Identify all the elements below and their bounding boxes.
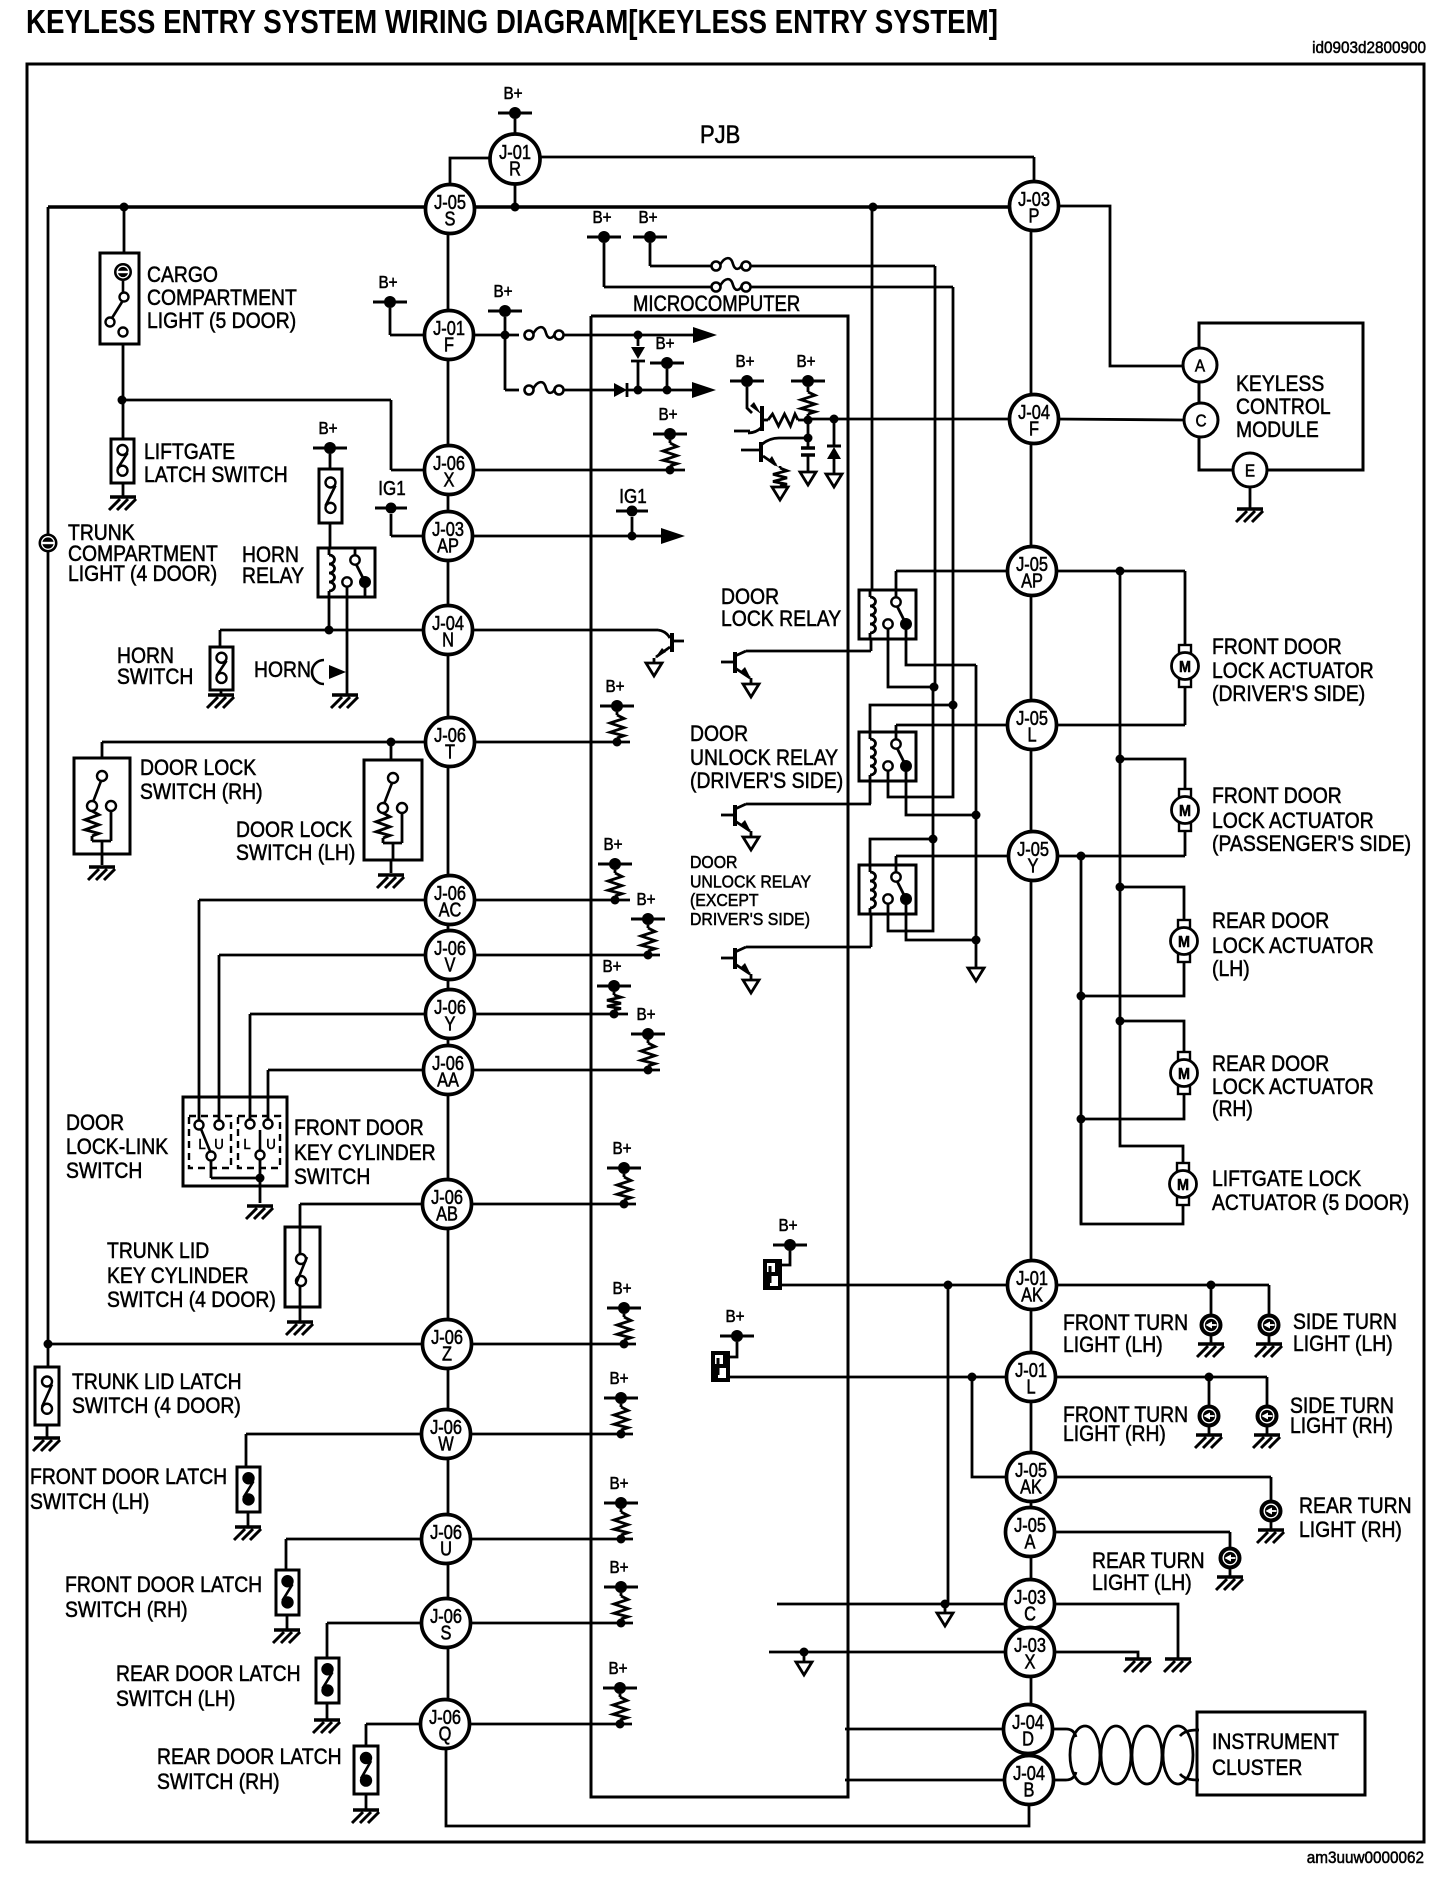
svg-text:am3uuw0000062: am3uuw0000062 <box>1307 1848 1424 1867</box>
svg-text:F: F <box>1029 417 1039 440</box>
wire B row <box>845 1779 1006 1782</box>
svg-text:LATCH SWITCH: LATCH SWITCH <box>144 463 288 487</box>
junction dot J-01R/PJB <box>511 203 520 212</box>
connector J-05 S <box>426 185 475 234</box>
horn <box>312 655 347 695</box>
svg-text:SWITCH (RH): SWITCH (RH) <box>65 1598 188 1622</box>
wire relay1 pivot feed <box>895 571 898 590</box>
connector J-06 V <box>426 931 475 980</box>
label cargo compartment light <box>147 263 297 333</box>
ground front latch RH <box>273 1630 300 1643</box>
ground lock-link switch <box>246 1206 273 1219</box>
svg-text:B+: B+ <box>725 1306 744 1326</box>
side turn light LH <box>1259 1315 1280 1336</box>
svg-text:C: C <box>1024 1602 1036 1625</box>
connector J-05 Y <box>1009 832 1058 881</box>
svg-text:Z: Z <box>442 1342 452 1365</box>
svg-text:(EXCEPT: (EXCEPT <box>690 890 759 910</box>
label rear door latch switch RH <box>157 1745 342 1794</box>
junction dot C row <box>941 1600 950 1609</box>
svg-text:C: C <box>1195 410 1206 430</box>
connector J-04 F <box>1010 395 1059 444</box>
svg-text:(DRIVER'S SIDE): (DRIVER'S SIDE) <box>1212 682 1365 706</box>
svg-text:FRONT DOOR: FRONT DOOR <box>1212 784 1342 808</box>
doc id id0903d2800900 <box>1312 38 1426 57</box>
wire S row <box>327 1623 633 1658</box>
connector J-05 AK <box>1007 1453 1056 1502</box>
wire M4 return <box>1081 1094 1184 1119</box>
front door lock actuator passengers <box>1172 789 1199 831</box>
front door latch switch LH <box>237 1467 260 1526</box>
svg-text:SWITCH (RH): SWITCH (RH) <box>140 780 263 804</box>
wire relay2 coil bottom <box>869 781 872 804</box>
junction dot T row <box>387 738 396 747</box>
wire AK row right <box>1056 1284 1269 1287</box>
connector J-01 F <box>425 311 474 360</box>
svg-text:B+: B+ <box>493 281 512 301</box>
junction dot M4 return <box>1077 1115 1086 1124</box>
junction dot diode branch <box>830 415 839 424</box>
label rear turn light LH <box>1092 1549 1205 1595</box>
wire relay2 fixed to bus <box>888 705 953 797</box>
svg-text:AP: AP <box>437 534 459 557</box>
svg-text:RELAY: RELAY <box>242 564 304 588</box>
label trunk lid latch switch <box>72 1370 242 1418</box>
ground horn <box>331 695 358 708</box>
svg-text:DOOR LOCK: DOOR LOCK <box>236 818 352 842</box>
wire right chain vertical <box>1030 206 1033 1803</box>
wire J-01F fuse row1 <box>473 334 519 337</box>
diode D2 row2 <box>614 383 693 397</box>
junction dot Y right <box>1077 852 1086 861</box>
transistor Q2 <box>741 438 808 500</box>
pin C <box>1184 403 1218 437</box>
diode row1-row2 <box>631 339 645 390</box>
wire C row right <box>1053 1604 1178 1658</box>
horn relay <box>318 548 375 597</box>
breaker AK <box>763 1259 782 1290</box>
svg-text:MODULE: MODULE <box>1236 418 1319 442</box>
B+ pull-up AA row <box>631 1004 665 1075</box>
wire x1120 vertical <box>1119 571 1122 1021</box>
keyless control module box <box>1199 323 1363 470</box>
wire M1 return <box>1184 687 1187 725</box>
svg-text:B: B <box>1024 1778 1035 1801</box>
wire base node down <box>807 420 810 438</box>
junction dot M3 feed <box>1116 883 1125 892</box>
svg-text:FRONT DOOR: FRONT DOOR <box>1212 635 1342 659</box>
wire J-04 F to module C <box>1054 419 1184 420</box>
wire X row right <box>1053 1652 1138 1658</box>
wire cargo drop <box>123 207 126 253</box>
junction dot x976 relay2 <box>972 811 981 820</box>
trunk lid key cylinder switch <box>285 1227 320 1321</box>
svg-text:DRIVER'S SIDE): DRIVER'S SIDE) <box>690 909 810 929</box>
B+ feed J-01 R <box>498 83 532 207</box>
wire front turn RH drop <box>1208 1377 1211 1406</box>
svg-text:LIGHT (RH): LIGHT (RH) <box>1063 1422 1166 1446</box>
svg-text:M: M <box>1179 658 1191 676</box>
wire M4 feed <box>1120 1021 1184 1052</box>
ground trunk lid latch <box>33 1425 60 1451</box>
wire relay bus upper <box>750 266 935 687</box>
label door lock relay <box>721 585 841 631</box>
svg-text:M: M <box>1177 1176 1189 1194</box>
wire left vertical x48 <box>47 207 50 1367</box>
wire T row right <box>476 741 630 744</box>
IG1 feed right <box>616 485 648 536</box>
connector J-06 Q <box>421 1700 470 1749</box>
B+ feed horn relay <box>313 418 347 469</box>
svg-text:SWITCH: SWITCH <box>66 1159 142 1183</box>
junction dot row2b <box>663 386 672 395</box>
svg-text:LOCK RELAY: LOCK RELAY <box>721 607 841 631</box>
wire relay1 coil bottom <box>870 639 873 651</box>
wire U row <box>286 1539 633 1570</box>
wire relay2 moving out <box>906 781 976 815</box>
label front turn light RH <box>1063 1403 1188 1446</box>
wire J-05 S to J-01 R <box>450 158 492 185</box>
svg-text:B+: B+ <box>655 333 674 353</box>
B+ pull-up AB row <box>607 1138 641 1209</box>
svg-text:PJB: PJB <box>700 121 740 149</box>
svg-text:A: A <box>1195 355 1206 375</box>
label front door key cylinder switch <box>294 1116 436 1189</box>
svg-text:U: U <box>440 1537 452 1560</box>
front door latch switch RH <box>276 1570 299 1629</box>
wire J-01R top link <box>540 157 1034 206</box>
connector J-06 Y <box>426 990 475 1039</box>
svg-text:B+: B+ <box>778 1215 797 1235</box>
svg-text:AC: AC <box>439 898 462 921</box>
svg-text:B+: B+ <box>592 207 611 227</box>
svg-text:IG1: IG1 <box>378 477 405 500</box>
ignition switch <box>319 469 342 523</box>
wire AP row right <box>472 535 663 538</box>
label door unlock relay drivers <box>690 722 843 793</box>
svg-text:CARGO: CARGO <box>147 263 218 287</box>
label rear turn light RH <box>1299 1494 1412 1542</box>
front turn light LH <box>1201 1315 1222 1336</box>
junction dot X row <box>800 1648 809 1657</box>
svg-text:DOOR: DOOR <box>721 585 779 609</box>
svg-text:B+: B+ <box>636 1004 655 1024</box>
label horn <box>254 658 311 682</box>
wire M3 feed <box>1120 887 1184 920</box>
wire Y row right <box>1056 855 1185 858</box>
pin E <box>1233 453 1267 487</box>
svg-text:LOCK ACTUATOR: LOCK ACTUATOR <box>1212 809 1374 833</box>
svg-text:UNLOCK RELAY: UNLOCK RELAY <box>690 872 811 892</box>
transistor QN <box>646 630 684 676</box>
ground rear latch RH <box>352 1810 379 1823</box>
wire N row left <box>220 630 424 647</box>
svg-text:Q: Q <box>439 1722 452 1745</box>
svg-text:B+: B+ <box>658 404 677 424</box>
svg-text:X: X <box>444 468 455 491</box>
wire M2 feed <box>1120 759 1185 789</box>
label door lock switch LH <box>236 818 355 865</box>
svg-text:B+: B+ <box>735 351 754 371</box>
label front door latch switch RH <box>65 1573 262 1622</box>
svg-text:B+: B+ <box>608 1658 627 1678</box>
B+ pull-up W row <box>604 1368 638 1439</box>
svg-text:MICROCOMPUTER: MICROCOMPUTER <box>633 293 800 317</box>
svg-text:SIDE TURN: SIDE TURN <box>1293 1310 1397 1334</box>
label horn relay <box>242 543 304 588</box>
connector J-05 A <box>1006 1508 1055 1557</box>
wire Z row <box>48 1343 636 1346</box>
wire Q row <box>366 1724 632 1746</box>
wire side turn RH drop <box>1266 1377 1269 1406</box>
fuse F4 relay bus lower <box>712 279 751 291</box>
wire left chain vertical <box>447 209 450 1747</box>
connector J-06 Z <box>423 1320 472 1369</box>
svg-text:INSTRUMENT: INSTRUMENT <box>1212 1730 1339 1754</box>
wire X row left <box>769 1651 1007 1654</box>
cargo compartment light switch <box>100 253 139 344</box>
connector J-04 N <box>424 606 473 655</box>
junction dot row1 <box>634 331 643 340</box>
wire to J-04 F <box>808 418 1008 421</box>
wire J-03 P to module A <box>1054 206 1183 366</box>
title <box>26 3 998 40</box>
svg-text:S: S <box>441 1621 452 1644</box>
label trunk compartment light <box>68 521 218 586</box>
svg-text:LIGHT (4 DOOR): LIGHT (4 DOOR) <box>68 562 217 586</box>
rear door lock actuator RH <box>1171 1052 1198 1094</box>
B+ feed relay bus 1 <box>587 207 711 287</box>
junction dot x976 relay3 <box>972 936 981 945</box>
wire Y row <box>250 1014 628 1120</box>
wire relay bus1 to relay3 fixed <box>888 687 933 931</box>
svg-text:HORN: HORN <box>254 658 311 682</box>
svg-text:DOOR LOCK: DOOR LOCK <box>140 756 256 780</box>
svg-text:CLUSTER: CLUSTER <box>1212 1756 1302 1780</box>
junction dot x873/PJB <box>869 203 878 212</box>
wire W row <box>246 1434 633 1467</box>
wire relay3 moving out <box>906 914 976 940</box>
wire x871 vertical <box>871 207 874 591</box>
B+ pull-up Q row <box>603 1658 637 1729</box>
svg-text:LIGHT (RH): LIGHT (RH) <box>1290 1414 1393 1438</box>
svg-text:DOOR: DOOR <box>66 1111 124 1135</box>
svg-text:AA: AA <box>437 1068 460 1091</box>
label side turn light RH <box>1290 1394 1394 1438</box>
wire M5 return <box>1081 1119 1183 1224</box>
label rear door lock actuator RH <box>1212 1052 1374 1121</box>
svg-text:SWITCH (LH): SWITCH (LH) <box>116 1687 235 1711</box>
B+ feed row2 <box>650 333 684 390</box>
wire ign to horn relay <box>329 523 332 548</box>
rear door latch switch RH <box>354 1746 378 1809</box>
footer code am3uuw0000062 <box>1307 1848 1424 1867</box>
junction dot relay bus1 <box>930 683 939 692</box>
ground side turn LH <box>1255 1335 1282 1357</box>
side turn light RH <box>1257 1406 1278 1427</box>
B+ feed J-01 L <box>720 1306 754 1357</box>
svg-text:(DRIVER'S SIDE): (DRIVER'S SIDE) <box>690 769 843 793</box>
svg-text:S: S <box>445 207 456 230</box>
junction dot AP row <box>628 532 637 541</box>
ground rear latch LH <box>313 1720 340 1733</box>
B+ pull-up S row <box>604 1557 638 1628</box>
svg-text:B+: B+ <box>609 1368 628 1388</box>
junction dot L1 x972 <box>968 1373 977 1382</box>
label front turn light LH <box>1063 1311 1188 1357</box>
svg-text:LIGHT (LH): LIGHT (LH) <box>1293 1332 1393 1356</box>
svg-text:M: M <box>1178 933 1190 951</box>
connector J-06 AA <box>424 1046 473 1095</box>
svg-text:B+: B+ <box>609 1473 628 1493</box>
junction dot base node <box>804 416 813 425</box>
wire C row left <box>777 1603 1007 1606</box>
wire AP row right <box>1055 570 1185 573</box>
signal ground C row <box>937 1604 953 1626</box>
svg-text:W: W <box>438 1432 454 1455</box>
B+ feed Q2 pull <box>791 351 825 420</box>
svg-text:REAR DOOR LATCH: REAR DOOR LATCH <box>157 1745 342 1769</box>
svg-text:M: M <box>1178 1065 1190 1083</box>
wire x972 down <box>972 1377 1008 1477</box>
trunk compartment light <box>39 534 58 553</box>
ground C row right <box>1164 1659 1191 1672</box>
wire T row left <box>102 742 424 758</box>
junction dot M4 feed <box>1116 1017 1125 1026</box>
liftgate latch switch <box>111 439 134 483</box>
B+ feed J-01 F <box>373 272 424 335</box>
B+ feed J-01 AK <box>773 1215 807 1265</box>
horn switch <box>210 647 233 690</box>
wire AK row <box>782 1284 1008 1287</box>
junction dot M3 return <box>1077 992 1086 1001</box>
ground rear turn RH <box>1257 1521 1284 1543</box>
svg-text:KEYLESS: KEYLESS <box>1236 372 1324 396</box>
label door lock switch RH <box>140 756 263 804</box>
svg-text:B+: B+ <box>609 1557 628 1577</box>
signal ground X row <box>796 1652 812 1675</box>
door unlock relay except drivers <box>859 865 916 914</box>
wire PJB bus y207 <box>48 205 1011 209</box>
connector J-01 L <box>1007 1353 1056 1402</box>
svg-text:(RH): (RH) <box>1212 1097 1253 1121</box>
transistor T2 <box>721 804 871 850</box>
B+ pull-up U row <box>604 1473 638 1544</box>
svg-text:B+: B+ <box>612 1278 631 1298</box>
wire relay1 moving out <box>906 639 976 665</box>
connector J-05 AP <box>1008 547 1057 596</box>
junction dot row2a <box>634 386 643 395</box>
svg-text:L: L <box>243 1135 250 1152</box>
door unlock relay drivers side <box>859 732 916 781</box>
svg-text:AK: AK <box>1021 1283 1043 1306</box>
wire AC row <box>199 900 630 1121</box>
wire liftgate drop <box>122 400 125 439</box>
front door lock actuator drivers <box>1172 645 1199 687</box>
label keyless control module <box>1236 372 1331 442</box>
B+ feed relay bus 2 <box>633 207 711 266</box>
rear turn light LH <box>1220 1548 1241 1569</box>
svg-text:LOCK ACTUATOR: LOCK ACTUATOR <box>1212 659 1374 683</box>
capacitor C1 <box>800 438 816 485</box>
svg-text:COMPARTMENT: COMPARTMENT <box>147 286 297 310</box>
svg-text:LOCK-LINK: LOCK-LINK <box>66 1135 168 1159</box>
node PJB label <box>700 121 740 149</box>
liftgate lock actuator <box>1170 1163 1197 1205</box>
IG1 feed left <box>375 477 424 536</box>
label rear door latch switch LH <box>116 1662 301 1711</box>
svg-text:P: P <box>1029 204 1040 227</box>
connector J-05 L <box>1008 701 1057 750</box>
wire x976 vertical <box>975 665 978 968</box>
ground door lock switch RH <box>88 867 115 880</box>
coiled harness to instrument cluster <box>1052 1726 1199 1784</box>
wire x1081 vertical <box>1080 856 1083 1224</box>
connector J-06 AC <box>426 876 475 925</box>
wire fuse feed row2 <box>505 335 519 390</box>
junction dot horn relay N <box>325 626 334 635</box>
wire AK5 row <box>1054 1477 1271 1501</box>
label door lock-link switch <box>66 1111 168 1183</box>
B+ pull-up V row <box>631 889 665 960</box>
trunk lid latch switch <box>35 1367 59 1425</box>
ground X row right <box>1124 1659 1151 1672</box>
wire X row <box>391 469 685 472</box>
transistor T1 <box>721 651 871 697</box>
B+ feed fuse rows <box>488 281 522 334</box>
junction dot front turn RH <box>1205 1373 1214 1382</box>
svg-text:REAR TURN: REAR TURN <box>1092 1549 1205 1573</box>
breaker L <box>711 1351 730 1382</box>
connector J-06 W <box>422 1410 471 1459</box>
label instrument cluster <box>1212 1730 1339 1780</box>
wire Q1 collector stub <box>734 430 750 433</box>
wire relay2 coil top <box>870 705 953 733</box>
label horn switch <box>117 644 193 689</box>
connector J-03 AP <box>424 512 473 561</box>
svg-text:R: R <box>509 157 521 180</box>
label front door lock actuator drivers <box>1212 635 1374 706</box>
connector J-04 D <box>1004 1705 1053 1754</box>
svg-text:LIGHT (5 DOOR): LIGHT (5 DOOR) <box>147 309 296 333</box>
label trunk lid key cylinder switch <box>107 1239 276 1312</box>
svg-text:REAR DOOR LATCH: REAR DOOR LATCH <box>116 1662 301 1686</box>
junction dot front turn LH <box>1207 1281 1216 1290</box>
wire M3 return <box>1081 962 1184 996</box>
wire relay1 fixed to bus <box>888 639 933 687</box>
label liftgate lock actuator <box>1212 1167 1409 1215</box>
svg-text:E: E <box>1245 460 1255 480</box>
svg-text:SWITCH: SWITCH <box>117 665 193 689</box>
svg-text:(LH): (LH) <box>1212 957 1250 981</box>
svg-text:KEY CYLINDER: KEY CYLINDER <box>107 1264 249 1288</box>
svg-text:B+: B+ <box>612 1138 631 1158</box>
fuse F3 relay bus upper <box>712 258 751 270</box>
svg-text:AP: AP <box>1021 569 1043 592</box>
svg-text:Y: Y <box>1028 854 1039 877</box>
svg-text:U: U <box>214 1135 224 1152</box>
svg-text:L: L <box>1027 723 1036 746</box>
svg-text:T: T <box>445 740 455 763</box>
wire L1 row <box>730 1376 1007 1379</box>
label front door latch switch LH <box>30 1465 227 1514</box>
wire L row left <box>896 724 1009 727</box>
wire relay bus lower <box>750 287 953 705</box>
svg-text:B+: B+ <box>796 351 815 371</box>
svg-text:SWITCH (RH): SWITCH (RH) <box>157 1770 280 1794</box>
svg-text:SWITCH (4 DOOR): SWITCH (4 DOOR) <box>72 1394 241 1418</box>
junction dot relay3 coil <box>929 835 938 844</box>
